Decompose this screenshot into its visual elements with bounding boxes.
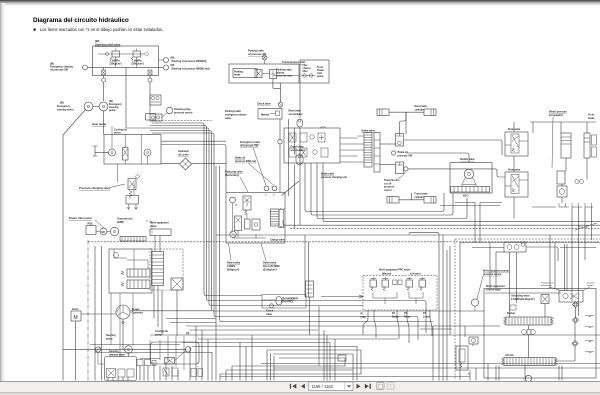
work equipment pump box	[150, 229, 171, 236]
wire demand feeders	[110, 293, 112, 345]
pump pressure sensor	[471, 299, 478, 306]
acc valve column	[271, 209, 280, 226]
hydraulic oil cooler	[180, 158, 192, 170]
wire charging unit bump	[320, 127, 326, 128]
PPC mid blocks	[393, 280, 398, 285]
PPC unit 3	[406, 280, 413, 287]
wire tc output	[130, 310, 212, 312]
wire cv top inner line	[485, 292, 561, 294]
steering demand block	[109, 249, 152, 293]
control valve main box	[484, 289, 596, 379]
brake valve port stubs	[358, 136, 365, 162]
wire pump shaft	[96, 231, 100, 233]
wire mesh verticals	[266, 350, 268, 381]
charge sub valve 2	[245, 219, 251, 229]
wire motor to left trunk	[63, 110, 86, 381]
wire manual drop	[279, 107, 281, 109]
lower box	[557, 171, 565, 184]
circle node left	[102, 78, 106, 82]
cooling fan pump circle	[185, 347, 191, 353]
wire bottom mesh loop B	[226, 354, 353, 370]
transmission control block	[450, 163, 492, 194]
page number combo box	[309, 382, 354, 390]
slow valve 2	[505, 172, 528, 197]
brake valve side column	[374, 133, 380, 173]
transmission case dashed	[146, 221, 152, 235]
accumulator column 2	[584, 133, 590, 158]
wire filter drop	[309, 297, 311, 335]
wire cv long verticals	[554, 243, 556, 289]
next page button	[357, 384, 361, 389]
tc leader	[398, 171, 406, 179]
wire accumulator feeders	[288, 119, 290, 196]
wire bottom drops left	[195, 326, 197, 381]
wire main supply line	[88, 66, 164, 68]
W circle right of junction	[521, 243, 525, 247]
steering oil pressure SW (N)	[164, 58, 169, 63]
PPC unit 1	[370, 280, 377, 287]
wire charging to brake valve stubs	[340, 138, 358, 156]
PPC unit 4	[419, 280, 426, 287]
wire front brake line	[399, 199, 424, 201]
PPC accumulator	[276, 297, 282, 306]
wire left trunk verticals	[87, 240, 89, 381]
wire bundle line 2	[150, 126, 426, 334]
bucket spool springs	[504, 317, 554, 325]
PPC unit 2	[382, 280, 389, 287]
filter check valves	[303, 74, 307, 78]
wire cv feed lines top	[489, 243, 491, 289]
wire bottom mesh h2	[190, 329, 318, 331]
lift arm springs	[502, 358, 558, 366]
PPC accumulator frame	[262, 295, 306, 309]
fan motor pump	[109, 149, 116, 156]
pressure charging valve	[128, 179, 136, 190]
charging manifold box	[126, 196, 139, 205]
wire bottom mesh h4	[198, 338, 398, 340]
parking brake actuator	[255, 70, 262, 78]
cylinder junction box	[504, 242, 526, 252]
wire junction segment	[321, 295, 363, 298]
wire charge internals	[232, 203, 234, 231]
wire cv bottom drops	[495, 366, 497, 381]
wire tc drain	[122, 319, 124, 349]
wire mesh h9	[182, 342, 330, 344]
wire accumulator link	[262, 299, 296, 301]
steering relay block 2	[150, 114, 162, 121]
wire upper branch	[98, 53, 145, 55]
leader sensor	[161, 113, 167, 118]
wire servo shaft	[81, 313, 116, 315]
charge valve unit box	[226, 193, 285, 244]
cooling fan unit box	[104, 135, 161, 165]
wire PPC port drops	[363, 310, 368, 335]
emergency steering oil pressure SW	[83, 65, 88, 70]
single page icon	[377, 383, 384, 390]
side cells	[592, 135, 597, 145]
brake valve spool	[364, 133, 372, 168]
right assembly top line	[530, 121, 596, 123]
accumulator column 1	[561, 133, 571, 158]
parking brake release solenoid valve	[270, 70, 277, 79]
wire pump down	[103, 111, 105, 135]
shaft wire	[93, 106, 99, 108]
wire drop mid	[125, 67, 127, 128]
fan second pump	[144, 149, 151, 156]
demand valve cell 2	[118, 369, 125, 377]
demand spool 2	[127, 280, 150, 289]
lower valve row 2	[191, 369, 197, 377]
wire charge diag	[282, 181, 300, 196]
wire bundle line 5	[152, 133, 418, 340]
bottom pump circle	[525, 375, 531, 381]
power train pump circle	[110, 227, 118, 235]
node diamond 1	[105, 52, 109, 56]
relief drop valve right	[148, 70, 152, 75]
charge mid block	[252, 219, 260, 230]
wire bottom left comb	[107, 377, 109, 381]
svg-text:1156 / 1162: 1156 / 1162	[312, 384, 334, 389]
wire bundle line 4	[150, 131, 484, 312]
arrow drain 2	[135, 204, 138, 210]
control valve outer solid enclosure	[460, 243, 600, 381]
check valve 3	[270, 304, 274, 308]
wire right bundle segment	[420, 328, 452, 330]
work equipment spool	[152, 252, 164, 286]
prev page button	[301, 384, 305, 389]
wire bottom long h6	[273, 367, 600, 369]
bucket spool	[506, 317, 551, 325]
wire charging drops	[129, 196, 131, 200]
emergency steering pump	[99, 102, 108, 111]
demand block pilot circle	[113, 252, 118, 257]
unload box	[559, 291, 583, 303]
wire right mesh verticals	[411, 232, 439, 380]
charge pilot circle	[230, 197, 236, 203]
check valve C	[572, 341, 578, 347]
charging unit internals	[289, 133, 296, 142]
first page button	[290, 384, 297, 389]
servo motor M	[71, 311, 81, 321]
inline filter block	[306, 281, 314, 297]
check valve 2	[278, 140, 282, 144]
wire mesh h10	[192, 346, 357, 348]
wire above toolbar long	[220, 376, 470, 378]
check valve on drop	[278, 102, 282, 106]
wire bus brake lines	[305, 163, 444, 212]
wire shuttle feeds	[468, 155, 470, 163]
sw circles above charge valve	[264, 186, 269, 191]
rear brake cylinder right	[424, 109, 436, 116]
wire left bundle dashed	[152, 120, 213, 122]
junction box right drop	[146, 114, 156, 121]
wire fan pump leads	[149, 340, 151, 360]
relief valve 2	[133, 51, 141, 57]
PPC valve box	[363, 276, 437, 311]
demand valve main body	[151, 342, 200, 364]
wire accumulator branch verticals	[304, 235, 306, 297]
work equipment relief	[171, 278, 183, 290]
wire drop right	[149, 75, 151, 78]
block spool hatched	[451, 187, 490, 193]
wire port row feed	[532, 206, 593, 208]
lower valve row 1	[163, 368, 169, 376]
wire fan box out top	[161, 140, 226, 142]
block legs	[462, 178, 476, 187]
wire cooler line	[161, 163, 180, 165]
relief drop valve left	[102, 70, 106, 75]
unloading valve	[541, 295, 549, 304]
wire mesh verticals 2	[219, 374, 221, 381]
charge main valve	[243, 196, 251, 210]
control valve outer dashed enclosure	[455, 239, 600, 380]
steering relay block	[150, 95, 161, 105]
mid components	[522, 330, 527, 335]
relief valve 1	[112, 51, 120, 57]
block pilot circle	[464, 169, 474, 179]
last chance filter unit box	[300, 60, 329, 83]
wire bundle line 1	[152, 123, 262, 296]
wire SW to solenoid	[262, 73, 270, 75]
filter column	[456, 346, 468, 370]
last page button	[365, 384, 371, 389]
wire fan box internals	[111, 135, 113, 150]
manual release box	[258, 109, 282, 120]
steering demand valve body	[105, 357, 137, 381]
wire brake valve to slow	[404, 140, 503, 155]
wire bundle line 3	[126, 128, 363, 306]
front brake accumulator	[296, 155, 303, 165]
charge pump circle	[230, 231, 236, 237]
wire bottom mesh loop C	[232, 358, 345, 366]
wire slow valve feeds	[513, 122, 515, 132]
front brake cylinder left	[387, 197, 399, 204]
wire elbow 6	[220, 166, 434, 322]
steering pump circle	[125, 346, 133, 354]
slow valve 1	[505, 132, 528, 156]
wire drop left	[103, 67, 105, 70]
box divider	[140, 135, 142, 165]
wire right of trunk	[215, 166, 217, 381]
wire PPC internals	[373, 292, 423, 304]
parking brake oil pressure SW	[262, 55, 267, 60]
wire to actuator 1	[380, 143, 396, 145]
sw circle 2	[404, 167, 408, 171]
steering pump pressure sensor	[166, 107, 172, 113]
wire pump shaft line	[63, 348, 186, 350]
wire right edge risers	[571, 207, 573, 301]
relief leader lines	[229, 244, 232, 261]
circle node right	[148, 78, 152, 82]
brake charging unit box	[284, 128, 340, 163]
fan symbol	[94, 146, 96, 156]
wire demand internals	[113, 249, 115, 258]
pressure charging diamond	[135, 174, 139, 178]
wire filter to parking valve	[274, 75, 299, 77]
wire transmission drop	[280, 83, 282, 102]
steering relief valve box	[93, 46, 159, 76]
wire right assembly links	[565, 158, 567, 171]
node diamond 2	[145, 52, 149, 56]
check valve A	[573, 302, 579, 308]
lift arm spool	[504, 358, 555, 366]
brake pedal actuator 1	[396, 134, 404, 147]
work equipment valve box dashed	[150, 249, 183, 290]
GR pump	[100, 228, 107, 235]
facing pages icon	[387, 383, 394, 390]
fan control valve	[123, 148, 129, 161]
wire full width lines	[216, 234, 600, 236]
demand valve cell 3	[127, 369, 134, 377]
wire valve drains	[115, 57, 117, 67]
wire cylinder drop jog	[400, 112, 407, 133]
twin circles	[575, 179, 579, 183]
small pilot valve	[510, 305, 516, 310]
charge sub valve 1	[235, 216, 242, 231]
rear brake accumulator	[297, 119, 303, 127]
wire left feeds	[340, 144, 358, 162]
wire right band h	[455, 202, 502, 204]
wire bottom long h5	[261, 363, 600, 365]
steering pump circle small	[95, 347, 100, 352]
wire mesh h8	[166, 318, 216, 320]
wire to actuator 2	[380, 163, 396, 165]
check valve B	[573, 317, 579, 323]
priority valve hatched bar	[120, 237, 146, 242]
leader lines	[253, 148, 266, 186]
brake oil pressure SW circle	[391, 151, 395, 155]
demand X valve	[165, 357, 175, 364]
leader arrows	[549, 287, 590, 291]
rear brake cylinder left	[377, 109, 389, 116]
emergency steering motor M1	[84, 102, 93, 111]
small inline connector	[338, 355, 346, 361]
steering oil pressure SW (Low)	[164, 65, 169, 70]
wire bottom mesh loop A	[220, 350, 361, 374]
wire bottom left crossbars	[90, 344, 180, 346]
front brake cylinder right	[424, 197, 436, 204]
demand lever	[175, 350, 187, 361]
wire we valve drops	[153, 286, 155, 319]
transmission unit box	[229, 64, 299, 83]
wire mesh h7	[170, 322, 216, 324]
wire we valve feeders	[154, 236, 156, 252]
wire bottom mesh h3	[150, 334, 600, 336]
demand spool 1	[127, 269, 150, 277]
wire right column pair	[564, 244, 566, 291]
demand valve cell 1	[107, 369, 116, 378]
aux boxes right of demand valve	[137, 360, 143, 366]
wire trunk extra	[161, 145, 226, 193]
torque converter	[116, 305, 130, 319]
sensor box	[469, 337, 478, 344]
brake pedal actuator 2	[396, 162, 404, 174]
arrow drain 1	[127, 204, 130, 210]
wire bottom mesh h1	[186, 325, 500, 327]
wire rear brake line	[389, 111, 424, 113]
wire solenoid drop	[273, 79, 281, 89]
wire cv inner links	[509, 252, 511, 317]
wire bottom right verticals	[469, 370, 471, 381]
pump unit box	[557, 186, 567, 197]
wire right lower v	[474, 203, 476, 244]
wire SW stub	[159, 59, 164, 61]
